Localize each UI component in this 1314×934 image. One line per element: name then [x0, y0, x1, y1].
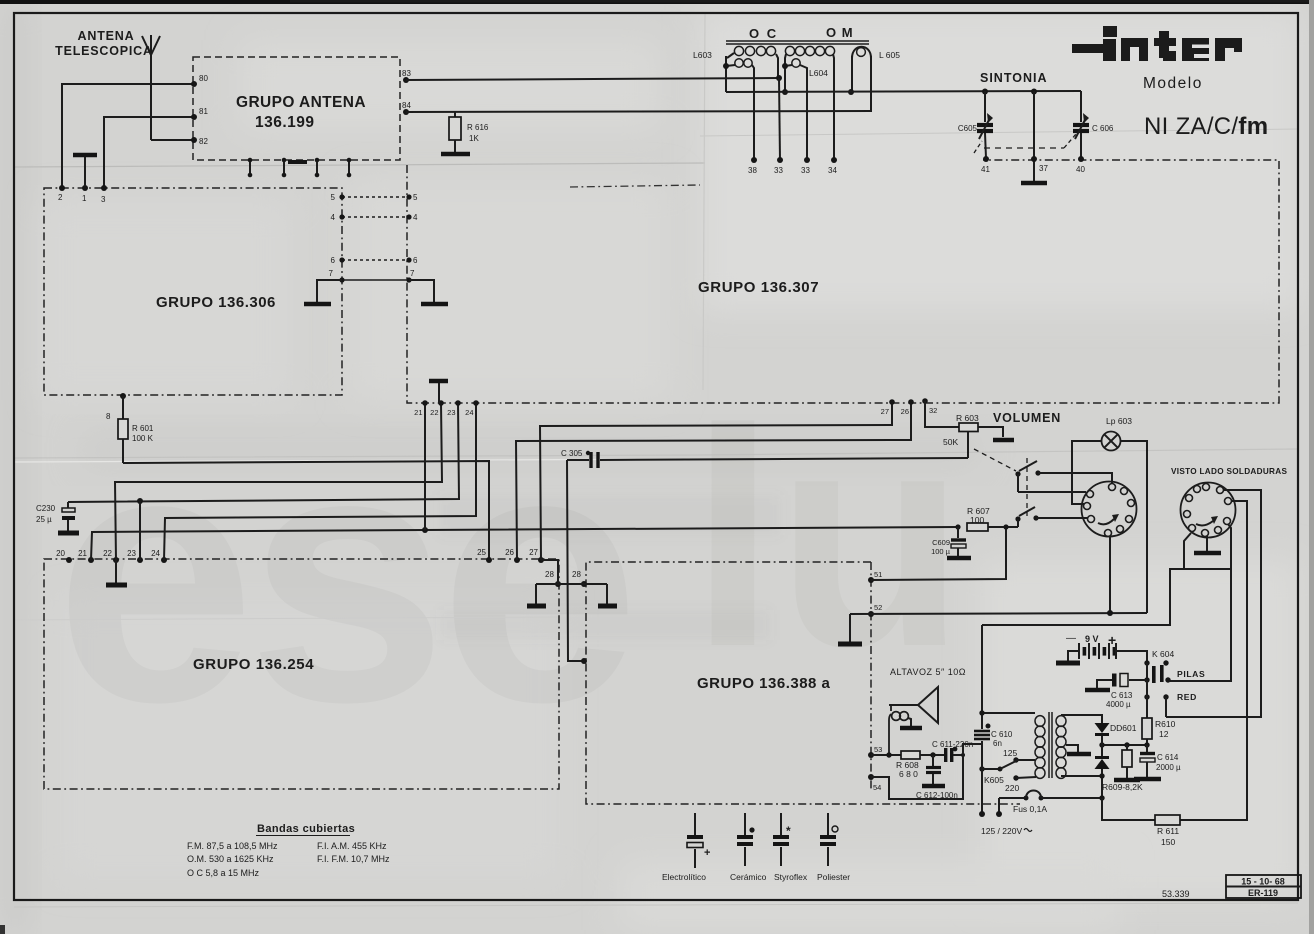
ground right of node 7: [409, 280, 434, 302]
dashed mechanical link: [1026, 458, 1028, 516]
svg-text:24: 24: [151, 549, 160, 558]
ground under terminal 22: [115, 560, 117, 583]
wire S1 to connector: [1038, 473, 1112, 484]
svg-text:27: 27: [529, 548, 538, 557]
wire rectifier to R611: [1102, 798, 1155, 820]
svg-text:27: 27: [881, 407, 889, 416]
svg-text:GRUPO 136.254: GRUPO 136.254: [193, 656, 314, 673]
ground on 52 bus: [849, 614, 851, 642]
svg-text:220: 220: [1005, 783, 1019, 793]
svg-text:100 K: 100 K: [132, 434, 154, 443]
transformer primary bottom 220: [1013, 775, 1018, 780]
svg-text:Poliester: Poliester: [817, 872, 850, 882]
svg-text:O.M. 530 a 1625 KHz: O.M. 530 a 1625 KHz: [187, 854, 274, 864]
svg-text:150: 150: [1161, 837, 1175, 847]
node pair 4-4: [342, 216, 409, 218]
capacitor C613: [1129, 679, 1147, 681]
transformer primary tap 125: [1013, 757, 1018, 762]
gang dashed link: [974, 141, 982, 153]
coil L603 primary: [734, 46, 743, 55]
svg-text:C 305: C 305: [561, 449, 583, 458]
legend capacitor Cerámico: [744, 813, 746, 835]
svg-text:4: 4: [331, 213, 336, 222]
speaker horn: [891, 704, 918, 706]
bus terminal 26 pair: [516, 402, 911, 560]
wire connector1 bottom to connector2: [1184, 533, 1191, 569]
node 81: [191, 114, 197, 120]
svg-text:F.M. 87,5 a 108,5 MHz: F.M. 87,5 a 108,5 MHz: [187, 841, 278, 851]
bus R601 to terminal 25: [123, 461, 489, 560]
connector 2 arrow: [1196, 521, 1213, 525]
capacitor C609: [955, 524, 960, 529]
svg-text:12: 12: [1159, 729, 1169, 739]
wire 83-bus junction to terminal 33: [776, 75, 782, 81]
connector circle 1 (volume switch): [1082, 482, 1137, 537]
svg-text:Fus 0,1A: Fus 0,1A: [1013, 804, 1047, 814]
svg-text:ANTENA: ANTENA: [78, 29, 135, 43]
svg-text:DD601: DD601: [1110, 723, 1137, 733]
terminals 25 26 27 on box 136.254: [486, 557, 492, 563]
svg-text:28: 28: [545, 570, 554, 579]
resistor R601: [120, 393, 126, 399]
terminal 37: [1031, 156, 1037, 162]
speaker coil: [889, 704, 891, 706]
svg-text:33: 33: [801, 166, 810, 175]
svg-text:21: 21: [414, 408, 422, 417]
svg-text:Electrolítico: Electrolítico: [662, 872, 706, 882]
node 80: [191, 81, 197, 87]
terminals 21-24 on box 136.307: [422, 400, 428, 406]
svg-text:125: 125: [1003, 748, 1017, 758]
svg-text:Bandas cubiertas: Bandas cubiertas: [257, 823, 355, 835]
svg-text:R 611: R 611: [1157, 826, 1179, 836]
svg-text:50K: 50K: [943, 437, 958, 447]
svg-text:K605: K605: [984, 775, 1004, 785]
terminal 1 with bar: [82, 185, 88, 191]
group box GRUPO 136.388a (dash-dot): [586, 562, 1020, 804]
wire node 84 bus: [406, 111, 871, 112]
svg-text:—: —: [1066, 633, 1076, 644]
node pair 7-7: [342, 279, 409, 281]
svg-text:NI ZA/C/fm: NI ZA/C/fm: [1144, 113, 1268, 140]
scan corner mark bottom left: [0, 925, 5, 934]
connector 1 arrow: [1098, 519, 1114, 524]
variable capacitor C605: [982, 89, 988, 95]
junction L604: [782, 63, 788, 69]
svg-text:ER-119: ER-119: [1248, 888, 1278, 898]
wire S1 lower to connector: [1018, 491, 1086, 493]
connector pins under antenna group: [249, 160, 251, 175]
inter logo: [1072, 26, 1242, 61]
svg-text:40: 40: [1076, 165, 1085, 174]
lamp wires: [1072, 441, 1102, 504]
connector 2 ground: [1206, 536, 1208, 551]
switch S2: [1015, 516, 1020, 521]
svg-text:3: 3: [101, 195, 106, 204]
terminals 27 26 32 on box 136.307: [889, 399, 895, 405]
wire C611 up to mains column: [963, 744, 982, 755]
svg-text:RED: RED: [1177, 692, 1197, 702]
long bus terminal 21 to R607: [91, 527, 958, 560]
svg-text:51: 51: [874, 570, 882, 579]
svg-text:82: 82: [199, 137, 208, 146]
resistor R609: [1126, 745, 1128, 750]
svg-text:54: 54: [873, 783, 881, 792]
dc rail: [1102, 744, 1147, 746]
battery left ground: [1068, 651, 1079, 661]
svg-text:53: 53: [874, 745, 882, 754]
terminal 3: [101, 185, 107, 191]
wire 51 to R607 junction: [871, 527, 1006, 580]
svg-text:C 610: C 610: [991, 730, 1013, 739]
creases: [14, 163, 705, 167]
svg-text:F.I. A.M. 455 KHz: F.I. A.M. 455 KHz: [317, 841, 387, 851]
dash-dot stub: [570, 185, 700, 187]
svg-text:21: 21: [78, 549, 87, 558]
junction L603: [723, 63, 729, 69]
svg-text:R 603: R 603: [956, 413, 979, 423]
svg-text:7: 7: [329, 269, 334, 278]
svg-text:100 µ: 100 µ: [931, 547, 951, 556]
svg-text:GRUPO 136.306: GRUPO 136.306: [156, 294, 276, 311]
node 84: [403, 109, 409, 115]
svg-text:R 601: R 601: [132, 424, 154, 433]
svg-text:41: 41: [981, 165, 990, 174]
svg-text:F.I. F.M. 10,7 MHz: F.I. F.M. 10,7 MHz: [317, 854, 390, 864]
svg-text:8: 8: [106, 412, 111, 421]
bus terminal 24 column: [164, 403, 476, 560]
svg-text:22: 22: [103, 549, 112, 558]
transformer secondary top: [1061, 714, 1102, 715]
svg-text:4: 4: [413, 213, 418, 222]
svg-text:80: 80: [199, 74, 208, 83]
connector 1 bottom wire: [1109, 537, 1111, 613]
scan top edge strip: [0, 0, 1314, 4]
node pair 6-6: [342, 259, 409, 261]
sintonia bus wire: [726, 91, 1081, 92]
svg-text:+: +: [704, 847, 710, 859]
svg-text:15 - 10- 68: 15 - 10- 68: [1241, 877, 1285, 887]
title block date box: [1226, 875, 1301, 898]
wire connector2 right to R611: [1180, 501, 1247, 820]
coil L603 secondary: [735, 59, 743, 67]
legend capacitor Poliester: [827, 813, 829, 835]
wire node 81 to terminal 3: [104, 117, 194, 186]
svg-text:26: 26: [505, 548, 514, 557]
wire C305 into group 388a: [567, 460, 584, 661]
coil L604 primary: [785, 46, 794, 55]
svg-text:2000 µ: 2000 µ: [1156, 763, 1181, 772]
svg-text:1: 1: [82, 194, 87, 203]
svg-text:L 605: L 605: [879, 50, 900, 60]
wire RED down to loop: [1165, 697, 1167, 717]
svg-text:6n: 6n: [993, 739, 1002, 748]
coil L605: [852, 47, 871, 58]
svg-text:136.199: 136.199: [255, 114, 315, 131]
svg-text:83: 83: [402, 69, 411, 78]
svg-text:5: 5: [331, 193, 336, 202]
svg-text:125 / 220V: 125 / 220V: [981, 826, 1022, 836]
svg-text:20: 20: [56, 549, 65, 558]
mains transformer T601: [982, 712, 1035, 714]
transformer secondary bottom: [1061, 775, 1102, 777]
capacitor C614: [1146, 745, 1148, 752]
svg-text:C 614: C 614: [1157, 753, 1179, 762]
terminal 40: [1078, 156, 1084, 162]
resistor R611: [1155, 815, 1180, 825]
svg-text:7: 7: [410, 269, 415, 278]
coil L604 secondary: [792, 59, 800, 67]
node pair 5-5: [342, 196, 409, 198]
svg-text:VOLUMEN: VOLUMEN: [993, 411, 1061, 425]
scan right edge strip: [1309, 0, 1314, 934]
wire S2 to connector: [1036, 517, 1088, 519]
terminal 52: [868, 611, 874, 617]
svg-text:*: *: [786, 824, 791, 838]
node 83: [403, 77, 409, 83]
svg-text:25 µ: 25 µ: [36, 515, 52, 524]
terminals 20-24 on box 136.254: [66, 557, 72, 563]
svg-text:52: 52: [874, 603, 882, 612]
antenna symbol: [142, 35, 160, 140]
pin tap bar: [288, 160, 307, 164]
mains input terminals: [981, 769, 983, 812]
svg-text:23: 23: [447, 408, 455, 417]
svg-text:TELESCOPICA: TELESCOPICA: [55, 44, 153, 58]
svg-text:37: 37: [1039, 164, 1048, 173]
svg-text:C605: C605: [958, 124, 978, 133]
sintonia center leg to ground: [1031, 89, 1037, 95]
legend capacitor Electrolítico: [694, 813, 696, 835]
svg-text:Modelo: Modelo: [1143, 75, 1203, 92]
svg-text:R 616: R 616: [467, 123, 489, 132]
svg-text:28: 28: [572, 570, 581, 579]
resistor R616: [454, 112, 456, 117]
svg-text:L603: L603: [693, 50, 712, 60]
resistor R608: [871, 754, 901, 756]
svg-text:O C: O C: [749, 26, 778, 41]
svg-text:GRUPO 136.388 a: GRUPO 136.388 a: [697, 675, 831, 692]
node 82: [191, 137, 197, 143]
svg-text:PILAS: PILAS: [1177, 669, 1205, 679]
svg-text:6: 6: [331, 256, 336, 265]
battery plus wire to K604: [1116, 651, 1147, 663]
svg-text:6 8 0: 6 8 0: [899, 769, 918, 779]
svg-text:L604: L604: [809, 68, 828, 78]
variable capacitor C606: [1080, 91, 1082, 122]
bus terminal 23 column: [68, 403, 459, 502]
terminal 51: [868, 577, 874, 583]
capacitor C610: [981, 625, 983, 729]
svg-text:25: 25: [477, 548, 486, 557]
bus terminal 22 column: [115, 403, 442, 560]
svg-text:ALTAVOZ 5″ 10Ω: ALTAVOZ 5″ 10Ω: [890, 667, 966, 677]
svg-text:22: 22: [430, 408, 438, 417]
svg-text:R609-8,2K: R609-8,2K: [1102, 782, 1143, 792]
svg-text:O M: O M: [826, 25, 854, 40]
ground bar above terminal 22 column: [429, 379, 448, 384]
svg-text:GRUPO ANTENA: GRUPO ANTENA: [236, 94, 366, 111]
svg-text:81: 81: [199, 107, 208, 116]
legend capacitor Styroflex: [780, 813, 782, 835]
svg-text:Lp 603: Lp 603: [1106, 416, 1132, 426]
svg-text:O C 5,8 a 15 MHz: O C 5,8 a 15 MHz: [187, 868, 260, 878]
wire 54 loop: [871, 755, 963, 799]
terminals 38 33 33 34: [751, 157, 757, 163]
svg-text:6: 6: [413, 256, 418, 265]
diode DD601 bottom: [1101, 745, 1103, 757]
transformer center tap ground: [1066, 745, 1078, 752]
svg-text:53.339: 53.339: [1162, 889, 1190, 899]
wire 52 bus: [850, 613, 1147, 614]
switch S1 (on pot): [1015, 471, 1020, 476]
svg-text:84: 84: [402, 101, 411, 110]
svg-text:VISTO LADO SOLDADURAS: VISTO LADO SOLDADURAS: [1171, 467, 1287, 476]
terminal 2: [59, 185, 65, 191]
bus terminal 27 pair: [540, 402, 892, 560]
wire connector2 to PILAS: [1170, 524, 1231, 681]
capacitor C612: [932, 755, 934, 766]
svg-text:Cerámico: Cerámico: [730, 872, 767, 882]
svg-text:32: 32: [929, 406, 937, 415]
svg-text:SINTONIA: SINTONIA: [980, 71, 1048, 85]
svg-text:33: 33: [774, 166, 783, 175]
svg-text:C230: C230: [36, 504, 56, 513]
wire connector2 top to RED loop: [1166, 490, 1261, 717]
svg-text:34: 34: [828, 166, 837, 175]
dashed link pot to switch: [974, 449, 1016, 471]
group box GRUPO ANTENA 136.199 (dashed): [193, 57, 400, 160]
svg-text:K 604: K 604: [1152, 649, 1174, 659]
speaker ground: [908, 718, 911, 726]
group box GRUPO 136.306 (dash-dot): [44, 188, 342, 395]
svg-text:5: 5: [413, 193, 418, 202]
svg-text:R610: R610: [1155, 719, 1176, 729]
ground left of node 7: [317, 280, 342, 302]
wire node 83 bus: [406, 78, 780, 80]
svg-text:24: 24: [465, 408, 473, 417]
svg-text:4000 µ: 4000 µ: [1106, 700, 1131, 709]
svg-text:26: 26: [901, 407, 909, 416]
resistor R610: [1146, 680, 1148, 718]
svg-text:2: 2: [58, 193, 63, 202]
group box GRUPO 136.254 (dash-dot): [44, 559, 559, 789]
wire terminal 28 grounds: [536, 583, 607, 585]
svg-text:C609: C609: [932, 538, 950, 547]
terminal 54: [868, 774, 874, 780]
svg-text:C 613: C 613: [1111, 691, 1133, 700]
svg-text:GRUPO 136.307: GRUPO 136.307: [698, 279, 819, 296]
svg-text:9 V: 9 V: [1085, 634, 1099, 644]
terminal 53: [868, 752, 874, 758]
wire node 80 to terminal 2: [62, 84, 194, 186]
svg-text:C 606: C 606: [1092, 124, 1114, 133]
transformer core lines: [726, 41, 869, 44]
wire node 82 to antenna: [151, 139, 194, 141]
terminal 41: [983, 156, 989, 162]
svg-text:23: 23: [127, 549, 136, 558]
svg-text:Styroflex: Styroflex: [774, 872, 808, 882]
wire mains to RED riser: [982, 569, 1231, 625]
group box GRUPO 136.307 (dash-dot): [407, 160, 1279, 403]
svg-text:1K: 1K: [469, 134, 479, 143]
svg-text:38: 38: [748, 166, 757, 175]
